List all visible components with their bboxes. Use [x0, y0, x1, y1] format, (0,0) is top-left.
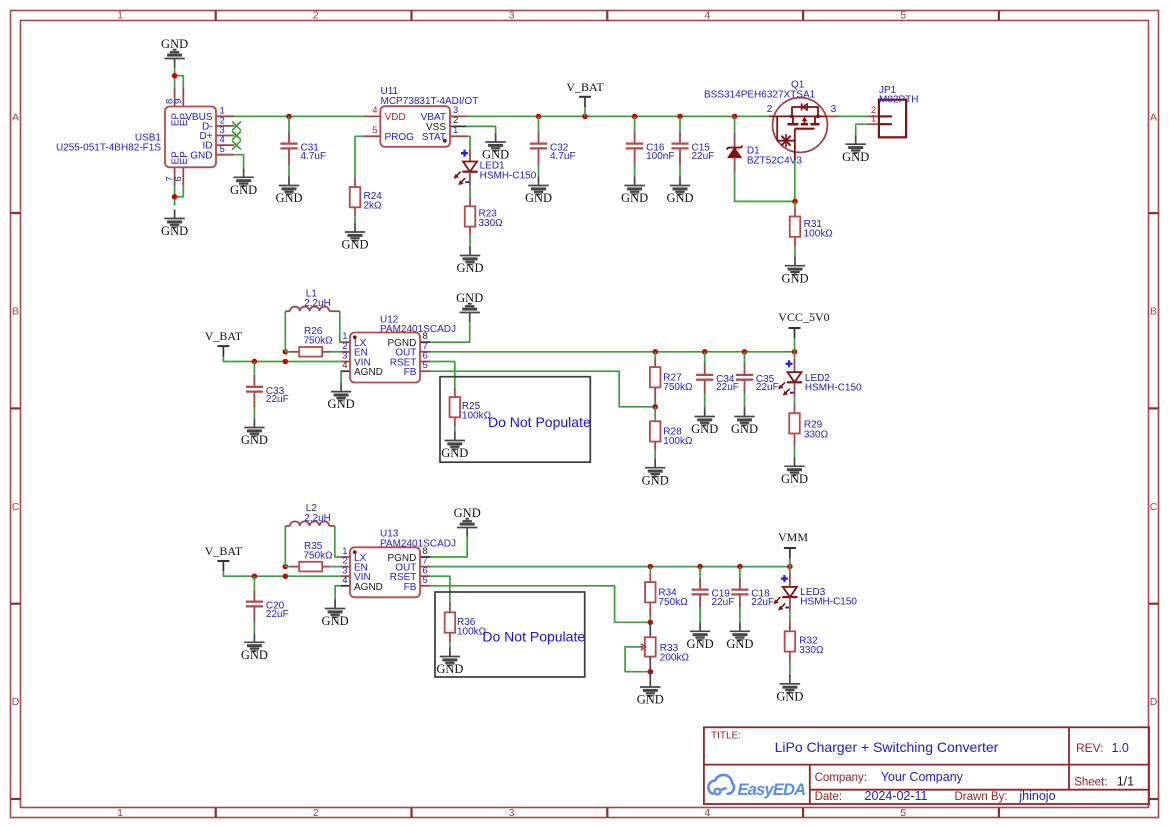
svg-text:GND: GND [230, 183, 257, 197]
svg-text:100kΩ: 100kΩ [462, 411, 492, 422]
junction [702, 349, 708, 355]
wire [253, 362, 255, 376]
wire VCC_5V0 rail [431, 351, 795, 353]
wire [704, 352, 706, 363]
svg-text:5: 5 [220, 144, 225, 155]
resistor R27 [650, 358, 693, 402]
svg-text:3: 3 [831, 104, 837, 115]
svg-text:A: A [12, 111, 19, 123]
wire [654, 352, 656, 359]
wire [223, 357, 340, 362]
ground GND (R32) [789, 675, 791, 684]
svg-text:Sheet:: Sheet: [1074, 776, 1107, 788]
junction [648, 564, 654, 570]
wire [744, 352, 746, 363]
wire [467, 136, 470, 148]
ground GND (R23) [469, 247, 471, 256]
svg-text:100kΩ: 100kΩ [804, 229, 834, 240]
svg-text:GND: GND [161, 37, 188, 51]
resistor R36 [445, 602, 487, 643]
svg-text:GND: GND [241, 648, 268, 662]
svg-text:GND: GND [190, 150, 212, 161]
svg-text:PROG: PROG [385, 132, 415, 143]
wire [699, 608, 701, 623]
resistor R23 [465, 197, 503, 237]
svg-text:1: 1 [117, 807, 123, 819]
svg-text:200kΩ: 200kΩ [660, 653, 690, 664]
capacitor C15 [671, 132, 714, 166]
svg-text:GND: GND [621, 191, 648, 205]
svg-text:4: 4 [342, 360, 347, 371]
ground GND (U12 AGND) [340, 383, 342, 392]
svg-text:Company:: Company: [815, 772, 867, 784]
LED LED2 [778, 359, 862, 397]
svg-text:5: 5 [372, 125, 377, 136]
wire [284, 311, 286, 352]
junction [252, 359, 258, 365]
svg-text:4.7uF: 4.7uF [301, 151, 327, 162]
wire [330, 566, 340, 568]
ground GND (C18) [739, 622, 741, 631]
svg-text:4.7uF: 4.7uF [550, 151, 576, 162]
svg-text:VMM: VMM [778, 530, 808, 544]
ground GND (R25) [454, 432, 456, 441]
svg-text:B: B [1150, 306, 1157, 318]
wire [223, 571, 340, 576]
wire [253, 622, 255, 634]
junction [792, 349, 798, 355]
svg-text:22uF: 22uF [712, 597, 735, 608]
wire [469, 236, 471, 246]
capacitor C32 [530, 132, 576, 166]
wire [789, 558, 791, 566]
ground GND (C32) [538, 177, 540, 186]
svg-text:C: C [1150, 501, 1158, 513]
svg-text:REV:: REV: [1076, 741, 1104, 755]
svg-text:TITLE:: TITLE: [711, 731, 741, 742]
resistor R26 [291, 326, 334, 357]
svg-text:AGND: AGND [354, 367, 383, 378]
ground GND (R31) [794, 257, 796, 266]
wire [466, 126, 495, 133]
svg-text:1: 1 [871, 114, 876, 125]
ground GND (R28) [654, 459, 656, 468]
svg-text:9: 9 [173, 99, 184, 104]
svg-text:Drawn By:: Drawn By: [955, 791, 1008, 803]
svg-text:4: 4 [704, 807, 710, 819]
wire [330, 351, 340, 353]
IC U11 MCP73831T [363, 86, 478, 147]
svg-text:GND: GND [776, 689, 803, 703]
ground GND (below USB1) [174, 210, 176, 219]
potentiometer R33 [639, 637, 689, 663]
inductor L1 [285, 288, 340, 311]
junction [652, 349, 658, 355]
IC U13 PAM2401SCADJ [340, 529, 456, 598]
ground GND (C20) [253, 633, 255, 642]
svg-text:2: 2 [313, 10, 319, 22]
wire [175, 76, 184, 88]
ground GND (JP1) [855, 135, 857, 144]
transistor Q1 BSS314PEH [704, 80, 838, 161]
note box Do Not Populate (R36) [435, 592, 585, 677]
capacitor C34 [696, 363, 739, 393]
wire [431, 537, 468, 558]
svg-text:GND: GND [482, 148, 509, 162]
wire [649, 672, 651, 678]
junction [252, 573, 258, 579]
wire [288, 165, 290, 177]
junction [172, 73, 178, 79]
svg-text:22uF: 22uF [751, 597, 774, 608]
LED LED3 [774, 574, 858, 612]
svg-text:5: 5 [900, 10, 906, 22]
connector USB1 [56, 88, 234, 186]
wire [454, 427, 456, 432]
wire [431, 322, 470, 343]
ground GND (C35) [744, 408, 746, 417]
svg-text:4: 4 [372, 105, 377, 116]
svg-text:EP: EP [179, 151, 190, 165]
svg-text:2: 2 [767, 104, 773, 115]
wire [739, 608, 741, 623]
svg-text:750kΩ: 750kΩ [304, 336, 334, 347]
ground GND (R36) [449, 648, 451, 657]
inductor L2 [285, 503, 335, 526]
svg-text:3: 3 [509, 10, 515, 22]
wire [431, 371, 656, 407]
svg-text:5: 5 [423, 360, 428, 371]
svg-text:330Ω: 330Ω [799, 645, 824, 656]
resistor R24 [350, 177, 383, 216]
svg-text:U255-051T-4BH82-F1S: U255-051T-4BH82-F1S [56, 143, 161, 154]
wire [794, 160, 796, 201]
svg-text:5: 5 [423, 575, 428, 586]
wire [339, 311, 342, 342]
svg-text:VCC_5V0: VCC_5V0 [778, 310, 829, 324]
svg-text:PAM2401SCADJ: PAM2401SCADJ [380, 538, 456, 549]
note box Do Not Populate (R25) [440, 377, 590, 463]
no-connect X pin D+ [232, 131, 241, 140]
wire [288, 116, 290, 131]
svg-text:22uF: 22uF [692, 151, 715, 162]
wire [794, 338, 796, 351]
wire [739, 567, 741, 578]
zener diode D1 [727, 132, 803, 172]
capacitor C31 [280, 132, 326, 166]
title block [704, 727, 1149, 804]
wire [335, 526, 341, 557]
wire [285, 351, 290, 353]
junction [648, 669, 654, 675]
wire [234, 155, 243, 169]
svg-text:GND: GND [691, 422, 718, 436]
svg-text:GND: GND [687, 637, 714, 651]
svg-text:VDD: VDD [385, 112, 406, 123]
svg-text:jhinojo: jhinojo [1018, 789, 1055, 803]
junction [632, 114, 638, 120]
capacitor C33 [246, 375, 289, 407]
junction [677, 114, 683, 120]
svg-text:4: 4 [704, 10, 710, 22]
wire [794, 397, 796, 405]
svg-text:PAM2401SCADJ: PAM2401SCADJ [380, 324, 456, 335]
svg-text:22uF: 22uF [266, 394, 289, 405]
svg-text:A: A [1150, 111, 1157, 123]
svg-text:GND: GND [456, 261, 483, 275]
svg-text:GND: GND [642, 473, 669, 487]
capacitor C18 [731, 578, 774, 608]
svg-text:C: C [12, 501, 20, 513]
svg-text:AGND: AGND [354, 582, 383, 593]
capacitor C19 [692, 578, 735, 608]
wire [789, 567, 791, 574]
ground GND (R29) [794, 457, 796, 466]
wire [838, 115, 867, 117]
svg-text:HSMH-C150: HSMH-C150 [480, 170, 537, 181]
resistor R31 [790, 207, 834, 247]
svg-text:2kΩ: 2kΩ [364, 201, 383, 212]
resistor R32 [785, 622, 824, 662]
resistor R35 [291, 541, 334, 572]
junction [283, 564, 289, 570]
wire [654, 402, 656, 407]
svg-text:5: 5 [900, 807, 906, 819]
svg-text:GND: GND [161, 224, 188, 238]
wire [679, 116, 681, 131]
wire [634, 116, 636, 131]
svg-text:GND: GND [441, 446, 468, 460]
svg-text:D: D [12, 696, 20, 708]
svg-text:GND: GND [275, 191, 302, 205]
svg-text:1.0: 1.0 [1112, 741, 1129, 755]
capacitor C16 [626, 132, 674, 166]
ground GND (U13 PGND) [466, 528, 468, 537]
wire [634, 165, 636, 177]
svg-text:GND: GND [666, 191, 693, 205]
wire [538, 116, 540, 131]
ground GND (C34) [704, 408, 706, 417]
svg-text:100nF: 100nF [646, 151, 674, 162]
junction [283, 349, 289, 355]
ground GND (C33) [253, 419, 255, 428]
resistor R25 [450, 387, 492, 426]
svg-text:B: B [12, 306, 19, 318]
wire V_BAT rail [467, 115, 769, 117]
svg-text:EP: EP [179, 113, 190, 127]
wire [431, 576, 450, 602]
wire (wiper loop) [625, 647, 650, 672]
ground GND (above USB1) [174, 59, 176, 68]
svg-text:330Ω: 330Ω [804, 429, 829, 440]
svg-text:GND: GND [842, 150, 869, 164]
wire [704, 393, 706, 408]
wire [449, 643, 451, 648]
svg-text:GND: GND [436, 662, 463, 676]
ground GND (C31) [288, 177, 290, 186]
wire [735, 172, 795, 201]
svg-text:MCP73831T-4ADI/OT: MCP73831T-4ADI/OT [381, 96, 479, 107]
wire [339, 371, 342, 382]
svg-text:750kΩ: 750kΩ [304, 550, 334, 561]
svg-text:2.2uH: 2.2uH [304, 513, 331, 524]
svg-text:4: 4 [342, 575, 347, 586]
wire [285, 566, 290, 568]
junction [787, 564, 793, 570]
svg-text:1/1: 1/1 [1117, 774, 1134, 788]
no-connect X pin ID [232, 141, 241, 150]
LED LED1 [454, 148, 537, 186]
junction [172, 194, 178, 200]
wire [744, 393, 746, 408]
wire [174, 68, 176, 88]
ground GND (C15) [679, 177, 681, 186]
junction [286, 114, 292, 120]
no-connect X pin D- [232, 122, 241, 131]
svg-text:GND: GND [781, 472, 808, 486]
ground GND (U12 PGND) [469, 313, 471, 322]
svg-text:GND: GND [454, 506, 481, 520]
svg-text:GND: GND [328, 397, 355, 411]
wire [253, 407, 255, 419]
wire [431, 586, 651, 623]
junction [648, 620, 654, 626]
resistor R29 [789, 405, 828, 446]
resistor R28 [650, 421, 693, 451]
svg-text:BSS314PEH6327XTSA1: BSS314PEH6327XTSA1 [704, 90, 816, 101]
svg-text:6: 6 [173, 176, 184, 181]
wire [354, 217, 356, 223]
junction [742, 349, 748, 355]
svg-text:Date:: Date: [815, 791, 843, 803]
svg-text:Do Not Populate: Do Not Populate [482, 628, 585, 644]
svg-text:330Ω: 330Ω [479, 218, 504, 229]
wire [584, 107, 586, 116]
svg-text:FB: FB [404, 367, 417, 378]
wire [284, 526, 286, 567]
wire [431, 362, 455, 388]
svg-text:22uF: 22uF [756, 382, 779, 393]
svg-text:2024-02-11: 2024-02-11 [865, 789, 928, 803]
svg-text:3: 3 [509, 807, 515, 819]
svg-text:EasyEDA: EasyEDA [738, 781, 806, 799]
ground GND (R24) [354, 223, 356, 232]
wire [789, 661, 791, 674]
svg-text:2.2uH: 2.2uH [304, 298, 331, 309]
ground GND (C16) [634, 177, 636, 186]
wire [654, 407, 656, 422]
svg-text:GND: GND [525, 191, 552, 205]
svg-text:Do Not Populate: Do Not Populate [488, 414, 591, 430]
wire [538, 165, 540, 177]
svg-text:22uF: 22uF [716, 382, 739, 393]
svg-text:HSMH-C150: HSMH-C150 [800, 597, 857, 608]
capacitor C35 [736, 363, 779, 393]
svg-text:100kΩ: 100kΩ [663, 436, 693, 447]
svg-text:V_BAT: V_BAT [205, 544, 243, 558]
svg-text:1: 1 [453, 125, 458, 136]
wire [856, 124, 868, 135]
svg-text:2: 2 [313, 807, 319, 819]
wire [654, 451, 656, 459]
IC U12 PAM2401SCADJ [340, 314, 456, 382]
ground GND (R33) [649, 678, 651, 687]
wire [649, 618, 651, 623]
svg-text:STAT: STAT [422, 132, 446, 143]
wire [679, 165, 681, 177]
svg-text:GND: GND [322, 614, 349, 628]
ground GND (C19) [699, 622, 701, 631]
junction [283, 359, 289, 365]
junction [792, 199, 798, 205]
wire [335, 586, 340, 600]
wire VMM rail [431, 566, 790, 568]
svg-text:22uF: 22uF [266, 609, 289, 620]
junction [582, 114, 588, 120]
wire [649, 622, 651, 637]
wire [794, 201, 796, 206]
svg-text:HSMH-C150: HSMH-C150 [805, 383, 862, 394]
ground GND (U13 AGND) [334, 600, 336, 609]
wire [649, 567, 651, 574]
svg-text:GND: GND [456, 291, 483, 305]
svg-text:100kΩ: 100kΩ [457, 627, 487, 638]
svg-text:FB: FB [404, 582, 417, 593]
junction [697, 564, 703, 570]
wire [175, 186, 184, 197]
wire [253, 576, 255, 590]
svg-text:GND: GND [637, 693, 664, 707]
wire [699, 567, 701, 578]
wire [355, 136, 363, 177]
wire [794, 352, 796, 359]
ground GND (USB1 pin5) [243, 168, 245, 177]
svg-text:750kΩ: 750kΩ [658, 597, 688, 608]
wire [794, 247, 796, 257]
connector JP1 [867, 85, 918, 137]
wire VBUS rail [234, 115, 363, 117]
svg-text:GND: GND [241, 433, 268, 447]
ground GND (U11 VSS) [495, 133, 497, 142]
svg-text:LiPo Charger + Switching Conve: LiPo Charger + Switching Converter [775, 739, 999, 755]
svg-text:750kΩ: 750kΩ [663, 382, 693, 393]
wire [469, 186, 471, 197]
resistor R34 [645, 573, 688, 617]
wire [794, 446, 796, 458]
svg-text:V_BAT: V_BAT [566, 80, 604, 94]
junction [283, 573, 289, 579]
svg-text:M02PTH: M02PTH [879, 95, 918, 106]
svg-text:Your Company: Your Company [881, 770, 964, 784]
junction [737, 564, 743, 570]
junction [732, 114, 738, 120]
svg-text:GND: GND [726, 637, 753, 651]
wire [174, 186, 176, 206]
wire [649, 657, 651, 672]
svg-text:1: 1 [117, 10, 123, 22]
wire [734, 116, 736, 132]
svg-text:D: D [1150, 696, 1158, 708]
svg-text:GND: GND [341, 238, 368, 252]
junction [652, 404, 658, 410]
svg-text:GND: GND [781, 271, 808, 285]
capacitor C20 [246, 590, 289, 622]
wire [789, 611, 791, 621]
svg-text:V_BAT: V_BAT [205, 329, 243, 343]
svg-text:GND: GND [731, 422, 758, 436]
junction [536, 114, 542, 120]
